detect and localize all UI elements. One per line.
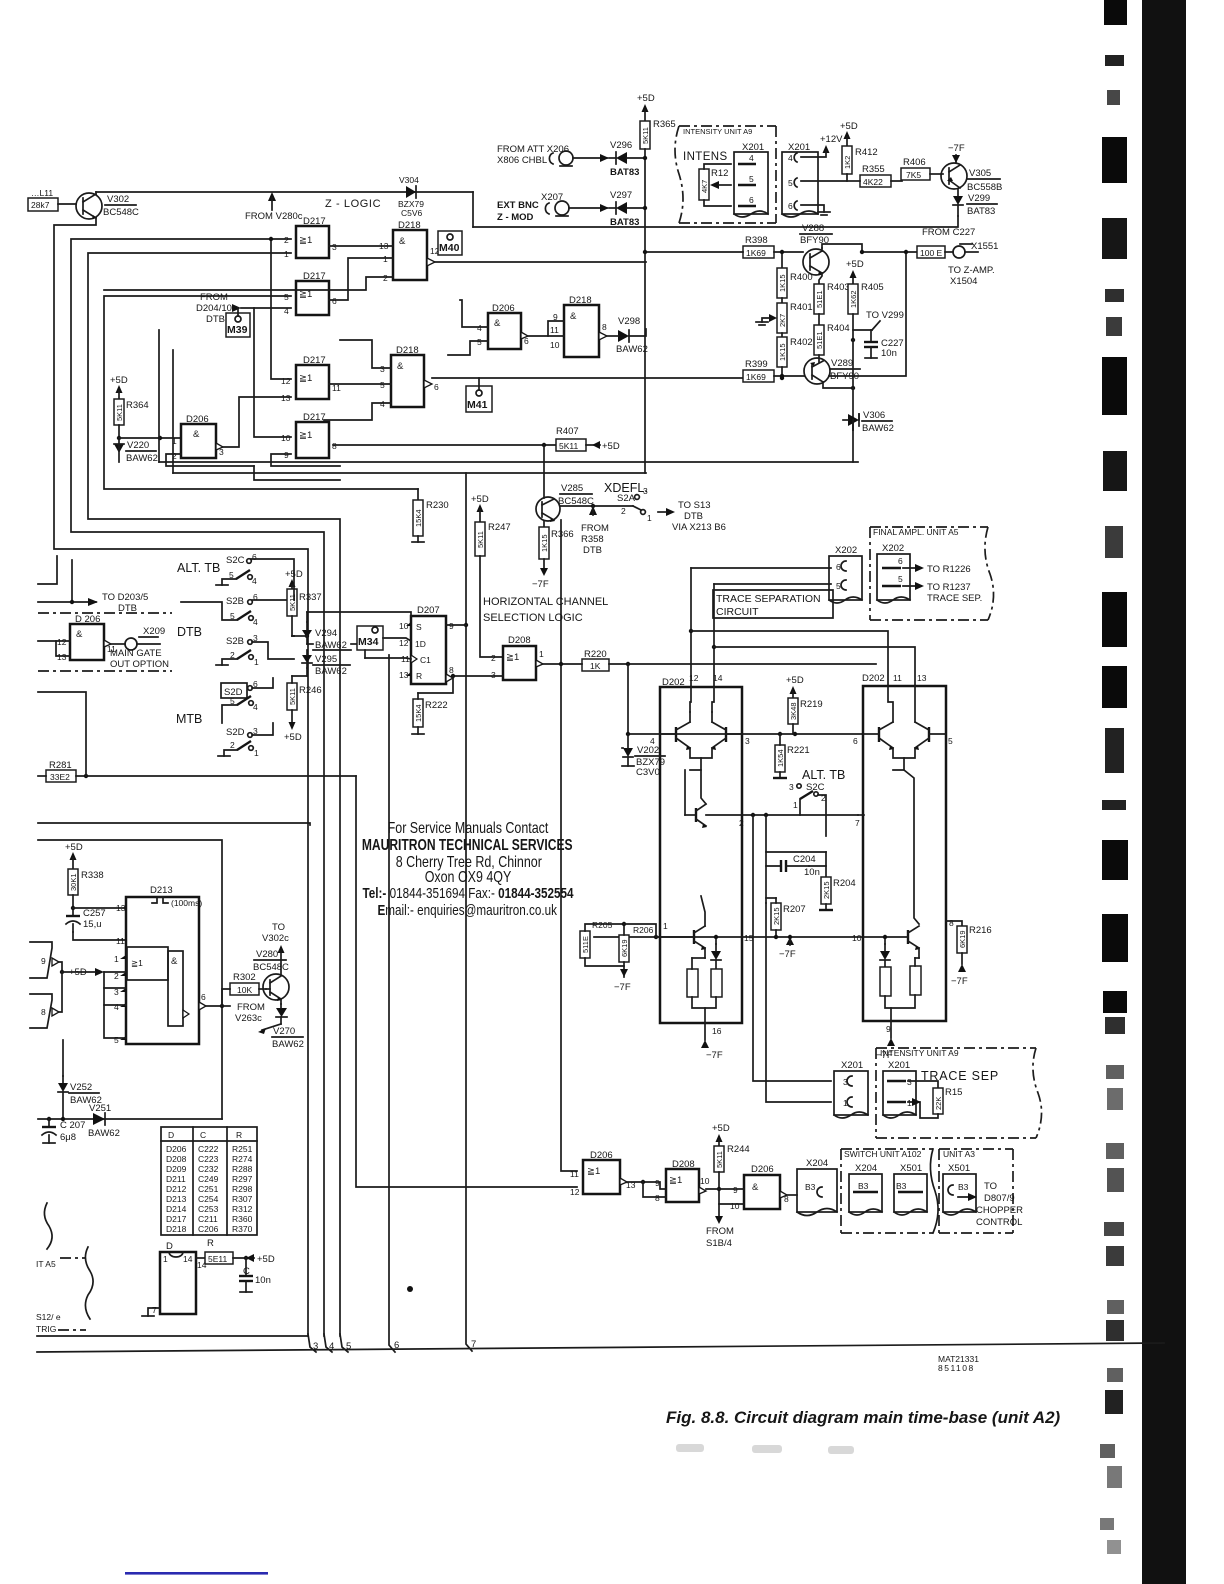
- dash-dot unit edge fragments (IT A5): [36, 1203, 93, 1334]
- svg-text:+5D: +5D: [257, 1254, 275, 1265]
- wire V289 collector to bus: [823, 382, 853, 388]
- svg-text:BAW62: BAW62: [616, 344, 648, 355]
- svg-text:1: 1: [254, 748, 259, 758]
- svg-text:5: 5: [380, 380, 385, 390]
- connector X202 (edge): [829, 545, 862, 603]
- svg-text:5: 5: [114, 1035, 119, 1045]
- svg-text:Tel:- 01844-351694 Fax:- 01844: Tel:- 01844-351694 Fax:- 01844-352554: [363, 885, 574, 902]
- svg-text:12: 12: [689, 673, 699, 683]
- ground pin7: [142, 1305, 160, 1316]
- svg-text:C 207: C 207: [60, 1120, 85, 1131]
- svg-text:6: 6: [332, 296, 337, 306]
- svg-text:2K15: 2K15: [822, 881, 831, 899]
- reference table D/C/R: [161, 1127, 257, 1235]
- svg-text:V302c: V302c: [262, 933, 289, 944]
- svg-text:4: 4: [749, 153, 754, 163]
- svg-text:10: 10: [852, 933, 862, 943]
- svg-text:2: 2: [284, 235, 289, 245]
- svg-text:4: 4: [380, 399, 385, 409]
- svg-text:&: &: [193, 429, 200, 440]
- resistor R399: [743, 359, 804, 382]
- potentiometer R401: [756, 302, 813, 337]
- svg-text:3: 3: [219, 447, 224, 457]
- capacitor C204 10n: [781, 854, 820, 878]
- svg-text:V305: V305: [969, 168, 991, 179]
- svg-text:X501: X501: [900, 1163, 922, 1174]
- connector X204 (in switch unit): [849, 1163, 882, 1215]
- svg-text:DTB: DTB: [177, 625, 202, 639]
- wire bottom rail pair: [37, 1335, 308, 1337]
- svg-text:6: 6: [788, 201, 793, 211]
- svg-text:V263c: V263c: [235, 1013, 262, 1024]
- svg-text:V202: V202: [637, 745, 659, 756]
- svg-text:D206: D206: [751, 1164, 774, 1175]
- svg-text:10n: 10n: [804, 867, 820, 878]
- svg-text:ALT. TB: ALT. TB: [802, 768, 845, 782]
- svg-text:5K11: 5K11: [641, 127, 650, 144]
- gate D208 (bottom chain b): [655, 1159, 710, 1203]
- flipflop D207: [399, 605, 454, 684]
- svg-text:TO R1237: TO R1237: [927, 582, 971, 593]
- svg-text:4: 4: [252, 576, 257, 586]
- svg-text:D214: D214: [166, 1204, 187, 1214]
- svg-text:13: 13: [281, 393, 291, 403]
- svg-text:C3V0: C3V0: [636, 767, 660, 778]
- resistors D202 left bottom pair: [687, 958, 722, 1023]
- transistor V285 BC548C XDEFL: [536, 445, 648, 522]
- resistor R338: [65, 842, 104, 916]
- gate D218b: [550, 295, 607, 357]
- resistor 100E output: [917, 241, 998, 287]
- svg-text:5: 5: [284, 292, 289, 302]
- resistor R405: [846, 259, 884, 342]
- diode V304 BZX79 C5V6: [398, 175, 424, 218]
- svg-text:X201: X201: [841, 1060, 863, 1071]
- svg-text:6μ8: 6μ8: [60, 1132, 76, 1143]
- wire nest C to D217b pin5: [104, 296, 418, 489]
- svg-text:+5D: +5D: [637, 93, 655, 104]
- svg-text:C222: C222: [198, 1144, 219, 1154]
- svg-text:+5D: +5D: [786, 675, 804, 686]
- diode V270 BAW62: [235, 1002, 304, 1050]
- svg-text:V304: V304: [399, 175, 419, 185]
- diode V294 BAW62: [302, 622, 351, 651]
- svg-text:9: 9: [733, 1185, 738, 1195]
- svg-text:1K15: 1K15: [778, 274, 787, 292]
- svg-text:C204: C204: [793, 854, 816, 865]
- wire long rail y462: [159, 461, 858, 463]
- wire x906 link: [829, 252, 906, 376]
- label ALT.TB S2C: [789, 768, 845, 836]
- wire V305 collector down: [473, 216, 958, 227]
- wire D217d out to R407: [333, 444, 558, 446]
- capacitor C227 10n: [864, 330, 904, 359]
- svg-text:…L11: …L11: [31, 188, 53, 198]
- svg-text:R246: R246: [299, 685, 322, 696]
- svg-text:8: 8: [655, 1193, 660, 1203]
- svg-text:4K22: 4K22: [863, 177, 883, 187]
- resistor R247: [471, 494, 511, 657]
- resistor R355: [847, 164, 902, 187]
- wire FROM D204 to D217b pin4: [241, 307, 291, 309]
- wire vertical bus x466: [466, 473, 472, 1351]
- svg-text:CIRCUIT: CIRCUIT: [716, 606, 759, 618]
- svg-text:R221: R221: [787, 745, 810, 756]
- svg-text:FROM: FROM: [581, 523, 609, 534]
- svg-text:&: &: [570, 311, 577, 322]
- svg-text:R288: R288: [232, 1164, 253, 1174]
- svg-text:22K: 22K: [934, 1097, 943, 1110]
- svg-text:511E: 511E: [581, 936, 590, 953]
- svg-text:S2D: S2D: [226, 727, 245, 738]
- svg-text:V280: V280: [256, 949, 278, 960]
- svg-text:S2A: S2A: [617, 493, 636, 504]
- pin 9 -7F: [876, 1021, 895, 1061]
- svg-text:+5D: +5D: [846, 259, 864, 270]
- svg-text:6: 6: [749, 195, 754, 205]
- svg-text:1: 1: [647, 513, 652, 523]
- switch S2B a: [181, 592, 294, 627]
- connector X201 (in unit A9): [883, 1060, 916, 1118]
- label FROM R358 DTB: [581, 506, 609, 556]
- svg-text:FROM: FROM: [706, 1226, 734, 1237]
- svg-text:BAW62: BAW62: [315, 640, 347, 651]
- svg-text:R312: R312: [232, 1204, 253, 1214]
- svg-text:+5D: +5D: [65, 842, 83, 853]
- svg-text:X204: X204: [855, 1163, 877, 1174]
- transistor D202 right bottom: [864, 926, 920, 958]
- svg-text:X501: X501: [948, 1163, 970, 1174]
- wire D217d pin9 loop: [271, 454, 340, 466]
- svg-text:BC548C: BC548C: [253, 962, 289, 973]
- switch S2C (tb select): [216, 552, 294, 586]
- svg-text:14: 14: [713, 673, 723, 683]
- label TO D807/9 CHOPPER CONTROL: [958, 1181, 1023, 1228]
- svg-text:C249: C249: [198, 1174, 219, 1184]
- svg-text:3: 3: [491, 670, 496, 680]
- svg-text:BC558B: BC558B: [967, 182, 1002, 193]
- svg-text:≧1: ≧1: [299, 430, 312, 441]
- gate D217c: [281, 355, 341, 403]
- svg-text:R: R: [207, 1238, 214, 1249]
- svg-text:X1504: X1504: [950, 276, 977, 287]
- svg-text:C232: C232: [198, 1164, 219, 1174]
- resistor R403: [814, 282, 850, 325]
- svg-text:16: 16: [712, 1026, 722, 1036]
- svg-text:−7F: −7F: [951, 976, 968, 987]
- IC pwr pins block: [160, 1238, 275, 1314]
- wire +5D pin2: [69, 967, 126, 1038]
- svg-text:BAW62: BAW62: [862, 423, 894, 434]
- label FROM S1B/4: [706, 1216, 734, 1249]
- resistor R222: [412, 693, 448, 734]
- svg-text:X806 CHBL: X806 CHBL: [497, 155, 547, 166]
- svg-text:C257: C257: [83, 908, 106, 919]
- resistor R400: [777, 250, 813, 303]
- svg-text:TO Z-AMP.: TO Z-AMP.: [948, 265, 995, 276]
- svg-text:FROM ATT X206: FROM ATT X206: [497, 144, 569, 155]
- svg-text:TO: TO: [984, 1181, 997, 1192]
- svg-text:9: 9: [284, 450, 289, 460]
- svg-text:ALT. TB: ALT. TB: [177, 561, 220, 575]
- svg-text:TO R1226: TO R1226: [927, 564, 971, 575]
- wires C204 section: [766, 815, 826, 903]
- resistor R221: [773, 734, 810, 778]
- wire D206b feeds: [460, 300, 488, 327]
- svg-text:MAURITRON TECHNICAL SERVICES: MAURITRON TECHNICAL SERVICES: [362, 836, 573, 854]
- svg-text:C253: C253: [198, 1204, 219, 1214]
- svg-text:V298: V298: [618, 316, 640, 327]
- wire D217a out to D218a: [329, 245, 393, 247]
- connector FROM ATT X206: [497, 144, 609, 166]
- gate D218c: [380, 345, 439, 409]
- svg-text:R206: R206: [633, 925, 654, 935]
- wire left lower rails: [38, 823, 310, 825]
- label +12V: [801, 134, 843, 157]
- IC box D202 (right half): [862, 673, 946, 1021]
- svg-text:X201: X201: [888, 1060, 910, 1071]
- svg-text:C206: C206: [198, 1224, 219, 1234]
- wires switch bank to D207: [293, 573, 295, 600]
- svg-text:INTENSITY UNIT A9: INTENSITY UNIT A9: [683, 127, 752, 136]
- svg-text:R365: R365: [653, 119, 676, 130]
- svg-text:V252: V252: [70, 1082, 92, 1093]
- transistor V305 BC558B: [941, 143, 1002, 193]
- svg-text:B3: B3: [805, 1182, 816, 1192]
- svg-text:1K54: 1K54: [776, 749, 785, 767]
- resistor R402: [777, 337, 813, 380]
- svg-text:6: 6: [898, 556, 903, 566]
- svg-text:DTB: DTB: [684, 511, 703, 522]
- svg-text:&: &: [494, 318, 501, 329]
- svg-text:14: 14: [183, 1254, 193, 1264]
- svg-text:X204: X204: [806, 1158, 828, 1169]
- svg-text:+5D: +5D: [602, 441, 620, 452]
- diode V296 BAT83: [609, 140, 647, 178]
- svg-text:R401: R401: [790, 302, 813, 313]
- transistor pair D202 left: [650, 687, 750, 770]
- svg-text:R205: R205: [592, 920, 613, 930]
- wire verticals to X201: [753, 815, 831, 1081]
- svg-text:28k7: 28k7: [31, 200, 50, 210]
- wire chain1: [627, 1182, 666, 1189]
- svg-text:V289: V289: [831, 358, 853, 369]
- capacitor C 10n (pwr): [239, 1258, 271, 1292]
- svg-text:1: 1: [539, 649, 544, 659]
- connector X209: [110, 626, 169, 670]
- svg-text:2: 2: [621, 506, 626, 516]
- svg-text:33E2: 33E2: [50, 772, 70, 782]
- wire vertical bus x561: [561, 520, 577, 1171]
- svg-text:R370: R370: [232, 1224, 253, 1234]
- resistor R398: [643, 235, 803, 258]
- gate D217b: [284, 271, 337, 316]
- svg-text:3: 3: [907, 1077, 912, 1087]
- resistor R12: [699, 164, 731, 206]
- svg-text:+12V: +12V: [820, 134, 843, 145]
- label TO V299: [853, 310, 904, 330]
- wire D218c pin3 feed: [340, 340, 391, 368]
- diode V220 BAW62: [114, 436, 158, 464]
- gate D206 (bottom chain c): [706, 1164, 797, 1211]
- svg-text:FINAL AMPL. UNIT A5: FINAL AMPL. UNIT A5: [873, 527, 959, 537]
- svg-text:BAW62: BAW62: [315, 666, 347, 677]
- diode V295 BAW62: [302, 650, 350, 677]
- svg-text:D213: D213: [150, 885, 173, 896]
- svg-text:&: &: [752, 1182, 759, 1193]
- svg-text:HORIZONTAL CHANNEL: HORIZONTAL CHANNEL: [483, 596, 608, 608]
- svg-text:R337: R337: [299, 592, 322, 603]
- resistor 28k7 (edge, partial): [28, 188, 76, 211]
- diode V252 BAW62: [58, 1040, 102, 1119]
- svg-text:R405: R405: [861, 282, 884, 293]
- gate D206 (option): [38, 614, 125, 662]
- svg-text:TRACE SEPARATION: TRACE SEPARATION: [716, 593, 821, 605]
- connector X201 (bottom edge): [834, 1060, 868, 1118]
- wire D206 out up to D217c pin13: [223, 397, 291, 447]
- svg-text:5: 5: [749, 174, 754, 184]
- capacitor C257 15u: [66, 908, 126, 940]
- svg-text:1K69: 1K69: [746, 372, 766, 382]
- svg-text:15K4: 15K4: [414, 509, 423, 527]
- diode V298 BAW62: [607, 316, 648, 355]
- IC D213 timer: [114, 885, 206, 1045]
- svg-text:BAT83: BAT83: [610, 167, 639, 178]
- gate D217a: [284, 216, 337, 259]
- svg-text:R247: R247: [488, 522, 511, 533]
- wire cross rails above D202: [689, 629, 693, 633]
- svg-text:D208: D208: [508, 635, 531, 646]
- label MAT21331 851108: [938, 1354, 979, 1373]
- svg-text:FROM V280c: FROM V280c: [245, 211, 303, 222]
- box M34: [357, 626, 383, 650]
- svg-text:R207: R207: [783, 904, 806, 915]
- resistor R246: [284, 676, 322, 743]
- svg-text:R204: R204: [833, 878, 856, 889]
- svg-text:R360: R360: [232, 1214, 253, 1224]
- svg-text:1: 1: [163, 1254, 168, 1264]
- svg-text:D209: D209: [166, 1164, 187, 1174]
- dashed box INTENSITY UNIT A9 (top): [675, 126, 776, 223]
- svg-text:3: 3: [380, 364, 385, 374]
- svg-text:R402: R402: [790, 337, 813, 348]
- svg-text:SELECTION LOGIC: SELECTION LOGIC: [483, 612, 583, 624]
- svg-text:8: 8: [332, 441, 337, 451]
- resistor R365: [637, 93, 676, 149]
- wire nest A to D217a pin2: [71, 239, 324, 1336]
- svg-text:OUT OPTION: OUT OPTION: [110, 659, 169, 670]
- dashed box UNIT A3: [939, 1149, 1013, 1233]
- svg-text:V306: V306: [863, 410, 885, 421]
- svg-text:+5D: +5D: [712, 1123, 730, 1134]
- resistor R337: [285, 569, 322, 636]
- wire to D203/5: [38, 556, 148, 614]
- switch S2D b: [218, 723, 273, 758]
- svg-text:M40: M40: [439, 242, 460, 254]
- label FROM D204/10 DTB: [196, 292, 241, 325]
- svg-text:EXT BNC: EXT BNC: [497, 200, 539, 211]
- svg-text:30K1: 30K1: [69, 873, 78, 891]
- svg-text:R12: R12: [711, 168, 728, 179]
- svg-text:B3: B3: [858, 1181, 869, 1191]
- wire bus 3/4/5 curves: [308, 1334, 316, 1352]
- junction dot stray: [407, 1286, 413, 1292]
- wire emitter V302 down left margin: [54, 218, 308, 1336]
- svg-text:FROM C227: FROM C227: [922, 227, 975, 238]
- connector X202 (in unit): [877, 543, 910, 603]
- svg-text:2: 2: [230, 740, 235, 750]
- svg-text:4: 4: [114, 1002, 119, 1012]
- wire D217b out to D218a pin1: [329, 258, 393, 300]
- diode D202 right bottom: [880, 935, 890, 967]
- svg-text:6: 6: [434, 382, 439, 392]
- svg-text:5: 5: [898, 574, 903, 584]
- svg-text:R358: R358: [581, 534, 604, 545]
- svg-text:1: 1: [114, 954, 119, 964]
- box M41: [466, 378, 492, 412]
- svg-text:8: 8: [449, 665, 454, 675]
- svg-text:UNIT A3: UNIT A3: [943, 1149, 975, 1159]
- svg-text:D208: D208: [166, 1154, 187, 1164]
- svg-text:M41: M41: [467, 399, 488, 411]
- wire long rail y473: [173, 472, 646, 474]
- svg-text:C254: C254: [198, 1194, 219, 1204]
- svg-text:51E1: 51E1: [815, 331, 824, 349]
- switch S2A: [560, 486, 726, 533]
- connector X201 (unit edge): [782, 142, 818, 217]
- svg-text:11: 11: [893, 673, 902, 683]
- resistor R407: [556, 426, 620, 452]
- svg-text:+5D: +5D: [284, 732, 302, 743]
- svg-text:5: 5: [948, 736, 953, 746]
- svg-text:DTB: DTB: [206, 314, 225, 325]
- svg-text:≧1: ≧1: [299, 373, 312, 384]
- svg-text:6: 6: [853, 736, 858, 746]
- svg-text:R398: R398: [745, 235, 768, 246]
- svg-text:V251: V251: [89, 1103, 111, 1114]
- svg-text:R244: R244: [727, 1144, 750, 1155]
- svg-text:BAW62: BAW62: [88, 1128, 120, 1139]
- svg-text:5K11: 5K11: [476, 531, 485, 548]
- capacitor C207 6u8: [42, 1117, 85, 1143]
- svg-text:5K11: 5K11: [715, 1151, 724, 1168]
- svg-text:−7F: −7F: [948, 143, 965, 154]
- svg-text:Fig. 8.8. Circuit diagram main: Fig. 8.8. Circuit diagram main time-base…: [666, 1408, 1061, 1427]
- dashed box FINAL AMPL UNIT A5: [870, 527, 994, 620]
- pin 16 -7F: [701, 1023, 723, 1061]
- svg-text:S2C: S2C: [226, 555, 245, 566]
- wire left nest lower rails: [158, 330, 160, 462]
- svg-text:C251: C251: [198, 1184, 219, 1194]
- svg-text:3: 3: [745, 736, 750, 746]
- svg-text:≧1: ≧1: [131, 958, 143, 968]
- svg-text:6K19: 6K19: [620, 939, 629, 957]
- gate D206b (Z-logic mid): [477, 303, 529, 349]
- svg-text:1K2: 1K2: [843, 156, 852, 169]
- svg-text:V297: V297: [610, 190, 632, 201]
- box M40: [438, 231, 462, 255]
- svg-text:6: 6: [524, 336, 529, 346]
- scan artifact: blue underline bottom: [125, 1572, 268, 1575]
- svg-text:V285: V285: [561, 483, 583, 494]
- svg-text:1K69: 1K69: [746, 248, 766, 258]
- transistor V302 BC548C: [76, 192, 139, 219]
- svg-text:2: 2: [739, 818, 744, 828]
- svg-text:4: 4: [253, 617, 258, 627]
- svg-text:R216: R216: [969, 925, 992, 936]
- transistor V288 BFY90: [800, 223, 919, 275]
- wire R364 node to D206 pin1: [119, 437, 181, 439]
